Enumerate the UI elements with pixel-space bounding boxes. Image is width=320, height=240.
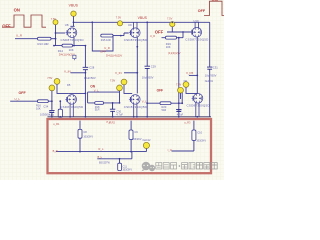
svg-text:OFF: OFF [157,89,163,93]
junction [130,151,132,153]
wire snub 3 [172,121,194,151]
svg-text:10K: 10K [166,45,171,49]
svg-text:OFF: OFF [155,29,164,34]
wire C-low source pins down [196,103,199,117]
svg-text:U_R: U_R [16,34,23,38]
watermark cloud icon [141,162,155,172]
junction [119,158,121,160]
watermark text glyphs [156,163,217,169]
junction [79,151,81,153]
svg-text:7.5V: 7.5V [167,16,173,20]
svg-text:V_IN: V_IN [64,69,71,73]
svg-text:o_R3: o_R3 [184,121,191,125]
junction [51,100,53,102]
resistor R19 [166,36,177,49]
junction [120,35,122,37]
junction [85,45,87,47]
junction [178,37,180,39]
resistor R17 [49,101,62,117]
svg-text:o_R1: o_R1 [53,122,60,126]
transistor U9 dual MOSFET [129,28,140,38]
wire phase rail A with capacitor C28 interruption [84,46,86,117]
wire phase rail C [196,37,198,94]
power port 7.5V cell B low 2 [117,85,123,91]
wire snub 1 [79,121,81,141]
svg-text:7.5V: 7.5V [176,83,181,86]
svg-text:10uF/50V: 10uF/50V [84,76,96,80]
capacitor C28 plates [83,67,89,69]
junction [85,93,87,95]
wire source stub A [73,37,75,45]
svg-text:BSC05TW: BSC05TW [99,163,111,165]
svg-text:U_L: U_L [15,97,21,101]
svg-text:NetC31: NetC31 [205,80,214,83]
wire circle stubs B low [120,85,133,103]
svg-text:NetC12: NetC12 [143,139,152,142]
junction [53,45,55,47]
junction [146,21,148,23]
capacitor C34 [40,101,55,117]
waveform right square wave [198,0,224,16]
svg-text:51R: 51R [95,108,100,112]
capacitor C9 [129,130,142,141]
svg-text:10uF/50V: 10uF/50V [205,73,217,77]
junction [59,100,61,102]
wire circle stubs A low [52,84,69,101]
svg-text:R13 10R: R13 10R [38,42,49,46]
svg-text:CSD87350Q5D: CSD87350Q5D [187,104,211,108]
capacitor C32 [176,109,184,116]
resistor R15 [101,34,113,42]
junction [85,72,87,74]
svg-text:C29: C29 [151,65,156,69]
svg-text:D4(1)(4)(2)V: D4(1)(4)(2)V [106,54,122,58]
svg-text:ON: ON [212,0,218,2]
capacitor C29 plates [145,66,151,68]
svg-text:C9: C9 [134,130,138,134]
wire gate loop B [92,22,128,51]
svg-text:R_o: R_o [99,147,104,151]
svg-text:10uF/50V: 10uF/50V [142,75,154,79]
svg-text:10K: 10K [69,48,74,52]
svg-text:OFF: OFF [198,9,206,13]
junction [73,45,75,47]
junction [55,32,57,34]
wire V_IN stub B [124,72,137,74]
wire snub 2 [130,121,132,152]
power port VBUS [69,4,79,17]
wire C8 column lower [79,141,81,152]
junction [181,102,183,104]
transistor U10 pins up [195,22,198,27]
junction [119,102,121,104]
svg-text:CSD87350Q5D: CSD87350Q5D [124,38,148,42]
svg-text:C8: C8 [83,130,87,134]
svg-text:7.5V: 7.5V [110,79,115,82]
junction [136,46,138,48]
diode D7 small [73,55,76,60]
wire U_R input [15,38,56,40]
transistor U9 pins up [134,22,137,28]
svg-text:C34: C34 [43,105,48,109]
svg-text:U_R: U_R [150,35,155,38]
power port yellow in box [143,142,149,148]
svg-text:OFF: OFF [19,91,27,95]
svg-text:C28: C28 [89,66,94,70]
transistor B-low dual MOSFET [129,95,140,105]
wire gate rail A [55,25,57,46]
junction [91,21,93,23]
junction [73,21,75,23]
svg-text:ON: ON [14,8,20,13]
wire V_D stub C [189,74,197,76]
junction [171,21,173,23]
svg-text:B_L: B_L [98,155,103,159]
waveform left square wave [2,8,46,29]
transistor U10 dual MOSFET [190,27,201,37]
resistor R16 [36,100,49,111]
capacitor C31 plates [207,67,212,69]
resistor R14 [58,44,74,53]
op wire main bus VBUS horizontal [74,21,210,23]
svg-text:B_R: B_R [53,149,58,153]
junction bus dots [51,116,198,118]
svg-text:103/2KV: 103/2KV [83,135,93,138]
svg-text:4.7uF: 4.7uF [116,112,123,116]
wire ON gate loop A-low [88,92,120,103]
svg-text:OFF: OFF [2,23,11,28]
svg-text:103/2KV: 103/2KV [122,169,132,172]
svg-text:103/2KV: 103/2KV [196,139,206,142]
power port 7.5V cell C [167,16,175,26]
wire B-low source pins down [134,104,137,117]
power port 7.5V cell B low 1 [110,79,127,85]
svg-text:P_D: P_D [107,121,112,124]
svg-text:7.5V: 7.5V [116,16,122,20]
power port 7.5V cell B [116,16,123,26]
junction [55,38,57,40]
wire decoupling rail B [146,22,148,117]
svg-text:VBUS: VBUS [69,4,79,8]
junction [136,72,138,74]
capacitor C10 [192,130,206,142]
resistor R13 [38,37,52,46]
wire box long [56,149,147,152]
wire R14 pulldown [54,45,85,47]
capacitor C30 [110,103,123,117]
wire V_IN stub A [71,72,86,74]
junction [112,102,114,104]
svg-text:C31: C31 [213,66,218,70]
junction [178,102,180,104]
wire A-low drain bar to phase [69,92,86,94]
power port 7.5V cell C low 2 [178,87,184,93]
wire R19 pulldown C [162,32,184,38]
resistor R18 [95,102,104,112]
wire U_L input [10,100,52,102]
wire gate C [167,27,191,32]
power port 7.5V (cell A gate) [51,17,58,25]
capacitor C8 [78,129,93,138]
wire circle stubs C low [181,87,198,99]
svg-text:CSD87350Q5D: CSD87350Q5D [60,105,84,109]
wire decoupling rail C corner [209,22,211,117]
wire box mid 2 [97,152,132,159]
wire gate stub A [56,32,66,34]
wire VBUS stub [70,16,74,26]
svg-text:U8: U8 [65,23,69,27]
junction [146,102,148,104]
svg-text:C10: C10 [197,131,202,135]
svg-text:51R: 51R [162,108,167,112]
capacitor C11 [118,159,133,172]
transistor U8 dual MOSFET [66,28,77,38]
svg-text:I_O: I_O [167,148,171,152]
svg-text:4.7uF: 4.7uF [177,113,184,116]
svg-text:D5: D5 [67,83,71,87]
svg-text:R15 10R: R15 10R [101,39,111,42]
power port 7.5V cell A low 1 [47,77,60,84]
svg-text:V_D5: V_D5 [186,71,194,75]
svg-text:CSD87350Q5D: CSD87350Q5D [61,38,85,42]
wire A-low source pins down [70,104,73,117]
resistor R20 [160,102,171,112]
wire ground bus [48,116,212,118]
junction [196,75,198,77]
svg-text:7.5V: 7.5V [47,77,52,80]
svg-text:CSD87350Q5D: CSD87350Q5D [124,105,148,109]
svg-text:U9: U9 [128,23,132,27]
junction [182,31,184,33]
wire phase rail B [136,37,138,93]
svg-text:VBUS: VBUS [138,16,148,20]
svg-text:103/2KV: 103/2KV [132,138,142,141]
wire OFF gate B-low [147,93,182,103]
power port 7.5V cell A low 2 [49,85,55,91]
power port 7.5V cell C low 1 [176,82,189,88]
wire OFF gate return rail [178,38,180,117]
svg-text:D6: D6 [184,79,188,83]
annotation red box [48,119,212,173]
transistor C-low dual MOSFET [192,94,203,104]
transistor A-low dual MOSFET [65,95,76,105]
svg-text:10K: 10K [36,106,41,110]
svg-text:V_IN: V_IN [115,71,122,75]
